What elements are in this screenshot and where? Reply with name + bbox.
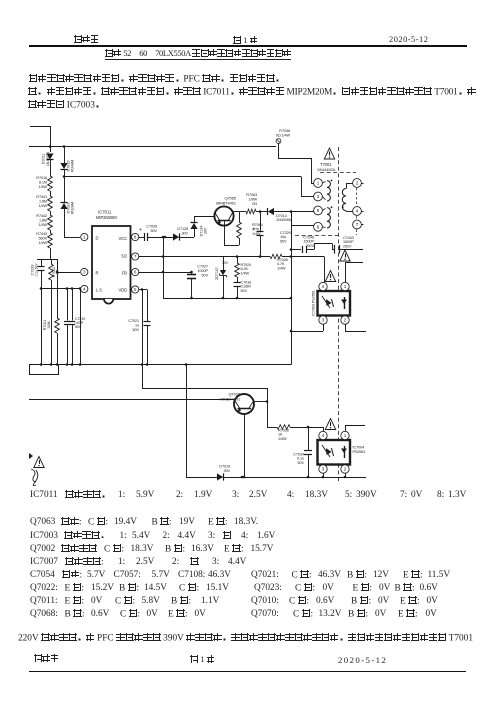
svg-text:1/8W: 1/8W [249, 197, 258, 201]
svg-text:R7442: R7442 [36, 214, 47, 218]
svg-text:7: 7 [134, 254, 137, 259]
svg-text:4: 4 [356, 209, 359, 214]
svg-text:2: 2 [356, 181, 359, 186]
svg-text:50V: 50V [202, 273, 209, 277]
svg-text:3: 3 [317, 194, 320, 199]
svg-text:50V: 50V [133, 328, 140, 332]
svg-text:D7019: D7019 [219, 465, 230, 469]
svg-text:VDD: VDD [118, 288, 127, 293]
svg-text:1N4006M: 1N4006M [276, 218, 292, 222]
svg-text:7: 7 [356, 222, 359, 227]
svg-text:0Ω 1/4W: 0Ω 1/4W [276, 133, 291, 137]
svg-text:250V: 250V [343, 244, 352, 248]
svg-text:4: 4 [83, 287, 86, 292]
svg-text:5: 5 [134, 287, 137, 292]
svg-text:1: 1 [344, 433, 347, 438]
svg-text:6: 6 [134, 270, 137, 275]
svg-text:C7021: C7021 [128, 319, 139, 323]
svg-text:250V: 250V [306, 244, 315, 248]
svg-text:1: 1 [344, 284, 347, 289]
svg-text:1M: 1M [56, 269, 60, 274]
svg-text:4: 4 [322, 433, 325, 438]
svg-text:C7026: C7026 [146, 225, 157, 229]
svg-text:IC7011: IC7011 [98, 210, 112, 215]
svg-text:1: 1 [317, 181, 320, 186]
svg-text:8.1M: 8.1M [39, 181, 47, 185]
svg-text:MMBT4401: MMBT4401 [216, 201, 237, 206]
svg-text:+: + [139, 227, 142, 233]
svg-text:L S: L S [96, 288, 102, 293]
svg-text:1/4W: 1/4W [39, 185, 48, 189]
svg-text:R7036: R7036 [279, 129, 290, 133]
svg-text:R7443: R7443 [36, 232, 47, 236]
svg-text:IC7004: IC7004 [353, 446, 365, 450]
svg-text:RU4AM: RU4AM [71, 160, 75, 172]
svg-text:30V: 30V [182, 231, 189, 235]
svg-text:1N4007B: 1N4007B [46, 151, 50, 166]
svg-text:3: 3 [83, 270, 86, 275]
svg-text:1/4W: 1/4W [278, 437, 287, 441]
svg-text:D7128: D7128 [177, 227, 188, 231]
svg-text:2: 2 [344, 318, 347, 323]
svg-text:2: 2 [344, 467, 347, 472]
svg-text:IC7003 PS2561: IC7003 PS2561 [312, 290, 316, 316]
svg-text:1.8M: 1.8M [39, 219, 47, 223]
svg-text:8: 8 [134, 235, 137, 240]
svg-text:50V: 50V [75, 325, 82, 329]
svg-text:50V: 50V [280, 239, 287, 243]
svg-text:560K: 560K [39, 237, 48, 241]
svg-text:R7441: R7441 [36, 195, 47, 199]
svg-text:50V: 50V [298, 461, 305, 465]
svg-text:C7027: C7027 [197, 265, 208, 269]
svg-text:0.1u 50V: 0.1u 50V [34, 263, 38, 277]
svg-text:3: 3 [322, 318, 325, 323]
svg-text:R: R [96, 271, 99, 276]
svg-text:1/4W: 1/4W [39, 204, 48, 208]
svg-text:30V: 30V [222, 261, 229, 265]
svg-text:1/4W: 1/4W [39, 223, 48, 227]
svg-text:8: 8 [317, 208, 320, 213]
svg-text:3: 3 [322, 467, 325, 472]
svg-text:1/4W: 1/4W [241, 271, 250, 275]
svg-text:4.7K: 4.7K [252, 227, 260, 231]
svg-text:1/4W: 1/4W [39, 241, 48, 245]
svg-text:1: 1 [83, 235, 86, 240]
svg-text:50V: 50V [241, 289, 248, 293]
svg-text:YA4449ZA: YA4449ZA [317, 167, 336, 172]
svg-text:MMBT4401: MMBT4401 [220, 397, 241, 402]
svg-text:39V: 39V [224, 469, 231, 473]
svg-text:D: D [96, 236, 99, 241]
svg-text:R7064: R7064 [252, 223, 263, 227]
svg-text:RU2AM: RU2AM [71, 202, 75, 214]
svg-text:SO: SO [121, 254, 128, 259]
svg-text:1.8M: 1.8M [39, 200, 47, 204]
svg-text:PS2561: PS2561 [353, 450, 366, 454]
svg-text:50V: 50V [151, 229, 158, 233]
svg-text:6: 6 [317, 224, 320, 229]
svg-text:FB: FB [122, 271, 127, 276]
svg-text:1000P: 1000P [198, 269, 209, 273]
svg-text:R7063: R7063 [246, 193, 257, 197]
svg-text:1u: 1u [135, 323, 139, 327]
svg-text:100K: 100K [47, 320, 51, 329]
svg-text:MIP2M20M: MIP2M20M [96, 215, 117, 220]
svg-text:4: 4 [322, 284, 325, 289]
svg-text:ZD7107: ZD7107 [215, 267, 219, 280]
svg-text:1/4W: 1/4W [277, 266, 286, 270]
svg-text:30V: 30V [204, 227, 208, 234]
svg-text:0Ω: 0Ω [252, 202, 257, 206]
svg-text:R7016: R7016 [36, 176, 47, 180]
svg-text:1/4W: 1/4W [252, 232, 261, 236]
svg-text:VCC: VCC [118, 236, 127, 241]
